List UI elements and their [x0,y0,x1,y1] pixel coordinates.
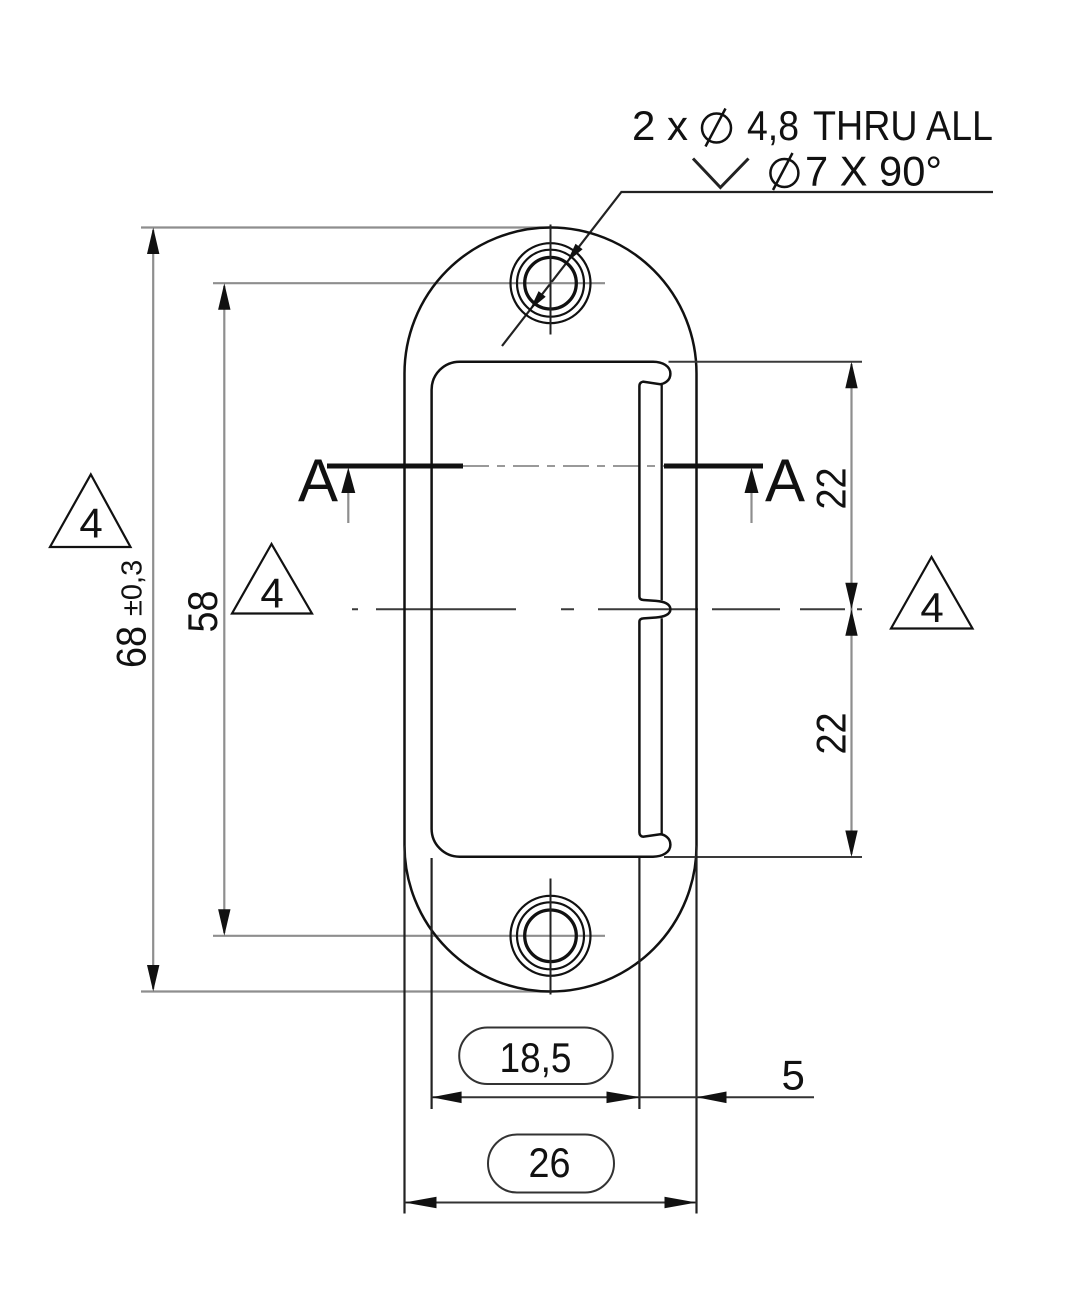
hole H1 countersink circle [511,243,591,323]
arrowhead 22 dim bottom [845,831,857,858]
bent tab inner edge line [661,385,663,834]
hole H1 bore circle [525,257,577,309]
svg-text:4: 4 [260,570,283,617]
hole H2 vertical centerline [550,879,552,995]
svg-text:18,5: 18,5 [500,1034,572,1081]
extension line top (68 dim) [141,226,552,228]
section line A-A right thick segment [664,464,763,469]
section arrow right [750,493,752,523]
svg-text:±0,3: ±0,3 [117,560,149,616]
arrowhead 26 dim left [405,1197,437,1209]
dimension 5 arrow [697,1092,727,1104]
countersink symbol [693,159,749,188]
leader arrowhead at inner circle [567,244,583,263]
hole H1 vertical centerline [550,225,552,335]
dimension line 58 [223,286,225,933]
arrowhead 26 dim right [665,1197,697,1209]
diameter symbol 1 [702,109,731,147]
section line A-A left thick segment [327,464,463,469]
dimension line 26 [405,1202,697,1204]
plate outer outline (stadium) [405,228,697,992]
hole H2 middle circle [517,902,584,969]
callout note text line 1 [632,102,993,149]
leader line underline and diagonal [502,192,993,346]
latch cutout outline with bent-tab edge [432,362,671,857]
dimension line 68 [152,230,154,989]
arrowhead 58 dim top [218,283,230,310]
hole H2 countersink circle [511,896,591,976]
diameter symbol 2 [770,153,798,190]
flag note triangle middle [232,544,312,614]
svg-text:7 X 90°: 7 X 90° [805,148,942,195]
svg-text:5: 5 [782,1052,805,1099]
svg-text:26: 26 [529,1139,571,1186]
extension line right 26 dim [695,846,697,1214]
arrowhead 58 dim bottom [218,909,230,936]
dimension line 18,5 and 5 [432,1096,814,1098]
svg-text:58: 58 [179,591,226,633]
arrowhead 68 dim top [147,228,159,255]
svg-text:A: A [765,447,805,514]
svg-text:4,8: 4,8 [747,102,799,149]
svg-text:68: 68 [108,626,155,668]
svg-text:4: 4 [920,584,943,631]
extension line upper hole center (58 dim) [213,282,605,284]
arrowhead 22 dim middle upper [845,583,857,610]
flag note triangle right [891,557,973,629]
arrowhead 18,5 dim right [607,1092,641,1104]
extension line right 18,5 dim [638,858,640,1109]
horizontal centerline [352,608,862,610]
flag note triangle left [50,474,131,547]
leader arrowhead at countersink circle [530,291,546,310]
extension line left 18,5 dim [431,858,433,1109]
svg-text:A: A [298,447,338,514]
section line A-A middle dash-dot [463,465,664,467]
svg-text:4: 4 [79,500,102,547]
arrowhead 68 dim bottom [147,965,159,992]
svg-text:22: 22 [808,468,855,510]
balloon 18,5 [459,1028,613,1085]
arrowhead 22 dim top [845,362,857,389]
extension line left 26 dim [403,846,405,1214]
svg-text:THRU ALL: THRU ALL [813,102,993,149]
svg-text:2 x: 2 x [632,102,688,149]
22 dims right: extension top [669,361,863,363]
section arrow left [347,493,349,523]
balloon 26 [488,1135,614,1193]
extension line lower hole center (58 dim) [213,935,605,937]
hole H2 bore circle [525,910,577,962]
svg-text:22: 22 [808,713,855,755]
22 dims right: dimension line [850,364,852,854]
extension line bottom (68 dim) [141,990,552,992]
22 dims right: extension bottom [664,856,862,858]
arrowhead 18,5 dim left [432,1092,462,1104]
hole H1 middle circle [517,250,584,317]
arrowhead 22 dim middle lower [845,609,857,636]
